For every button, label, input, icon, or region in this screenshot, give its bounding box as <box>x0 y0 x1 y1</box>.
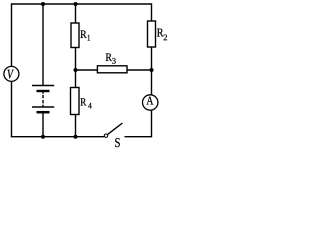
wire R1 branch top <box>75 4 77 23</box>
node R3 left <box>74 68 78 72</box>
battery <box>32 86 54 113</box>
battery long plate 1 <box>32 85 54 87</box>
ammeter A <box>143 95 158 110</box>
label R1 <box>80 30 86 38</box>
battery long plate 2 <box>32 106 54 108</box>
wire bottom right <box>125 136 152 138</box>
switch S <box>104 123 122 147</box>
resistor R2 <box>148 21 168 47</box>
wire right rail below ammeter <box>151 111 153 138</box>
resistor R4 <box>71 88 92 115</box>
resistor R1 <box>71 23 90 48</box>
label R4 <box>81 98 87 105</box>
wire top <box>12 3 152 5</box>
wire below R4 <box>75 115 77 137</box>
node R3 right <box>150 68 154 72</box>
node R1 top <box>74 2 78 6</box>
node R4 bottom <box>74 135 78 139</box>
label R2 <box>157 29 163 37</box>
wire right rail R2 to ammeter <box>151 47 153 95</box>
battery stub above plate 2 <box>42 105 44 107</box>
switch label S <box>115 138 120 147</box>
wire left rail upper <box>11 3 13 66</box>
battery dashed middle <box>42 95 44 104</box>
resistor R3 <box>97 53 127 72</box>
switch pivot <box>104 134 107 137</box>
junction dots <box>41 2 154 139</box>
wire bottom left <box>11 136 104 138</box>
battery stub below plate 1 <box>42 91 44 94</box>
node battery top <box>41 2 45 6</box>
label V <box>7 70 13 79</box>
wire right rail above R2 <box>151 3 153 21</box>
wire R3 right <box>127 69 152 71</box>
voltmeter V <box>4 66 19 81</box>
switch lever <box>108 123 123 134</box>
wire R3 left <box>76 69 98 71</box>
label A <box>146 97 153 105</box>
label R3 <box>106 53 112 61</box>
battery short plate 1 <box>37 90 50 92</box>
wire battery branch upper <box>42 4 44 85</box>
battery short plate 2 <box>37 111 50 114</box>
node battery bottom <box>41 135 45 139</box>
wire battery branch lower <box>42 113 44 137</box>
wire left rail lower <box>11 82 13 137</box>
wire R1 to R4 <box>75 48 77 88</box>
